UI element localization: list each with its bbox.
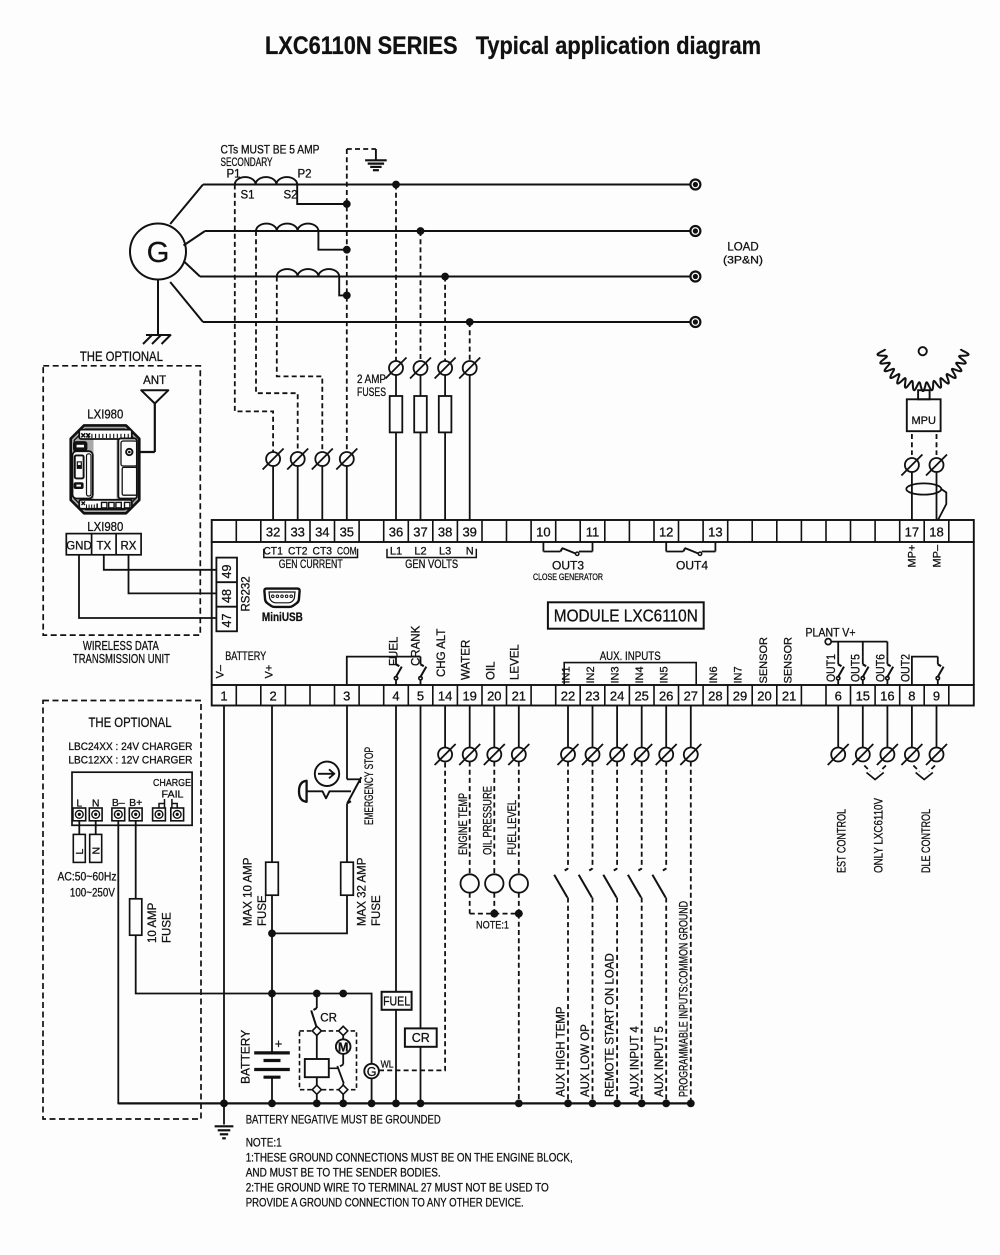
antenna ANT symbol xyxy=(141,390,168,403)
svg-text:LBC24XX : 24V CHARGER: LBC24XX : 24V CHARGER xyxy=(68,741,192,753)
svg-text:NOTE:1: NOTE:1 xyxy=(476,920,509,932)
svg-text:CLOSE GENERATOR: CLOSE GENERATOR xyxy=(533,572,603,582)
wire aux (dashed) pin 25 xyxy=(641,762,643,869)
junction CT3-COM xyxy=(343,292,351,300)
charger screw terminal xyxy=(89,808,102,821)
wire lamp to ground bus xyxy=(371,1078,373,1103)
charger screw terminal xyxy=(73,808,86,821)
sender body xyxy=(461,874,479,892)
terminal link CT group at pin 32 xyxy=(266,452,280,466)
relay contact blade xyxy=(329,1067,338,1069)
svg-text:3: 3 xyxy=(343,689,350,704)
wire pin 26 down xyxy=(665,706,667,748)
sender body xyxy=(485,874,503,892)
wire CT3 sense (dashed) xyxy=(277,277,323,453)
svg-text:L1: L1 xyxy=(390,546,402,558)
wireless module LXI980 device drawing xyxy=(71,425,140,513)
wire CT3 tap xyxy=(339,277,344,296)
module LXC6110N body outline xyxy=(212,520,974,542)
terminal link pin 24 xyxy=(610,748,624,762)
wire coil feed xyxy=(316,1036,318,1060)
svg-text:IN2: IN2 xyxy=(585,666,597,683)
svg-text:IN7: IN7 xyxy=(732,666,744,683)
wire MPU+ to terminal 17 xyxy=(911,472,913,520)
wire aux to ground bus (dashed) xyxy=(616,898,618,1104)
wire L3 sense (dashed) xyxy=(444,277,446,362)
junction L1 volts xyxy=(392,181,400,189)
svg-text:WIRELESS DATA: WIRELESS DATA xyxy=(83,639,159,653)
wire gen to L3 xyxy=(184,261,201,277)
svg-text:20: 20 xyxy=(757,689,771,704)
svg-text:SENSOR: SENSOR xyxy=(783,637,795,684)
wire line L3 xyxy=(200,276,690,278)
svg-text:FUSES: FUSES xyxy=(357,387,386,399)
terminal link pin 27 xyxy=(684,748,698,762)
wire sender commons (dashed) xyxy=(469,893,471,914)
svg-text:CT2: CT2 xyxy=(288,546,308,558)
wire positive rail xyxy=(272,994,372,1064)
svg-text:13: 13 xyxy=(708,525,722,540)
svg-text:P1: P1 xyxy=(227,169,241,181)
svg-text:IN1: IN1 xyxy=(560,666,572,683)
svg-text:24: 24 xyxy=(610,689,624,704)
svg-text:DLE CONTROL: DLE CONTROL xyxy=(921,809,933,873)
fuse 2A F1 xyxy=(395,375,397,396)
svg-text:MODULE LXC6110N: MODULE LXC6110N xyxy=(554,606,698,626)
svg-text:38: 38 xyxy=(438,525,452,540)
switch OUT5 (pin 15) xyxy=(862,642,864,657)
wire aux to ground bus (dashed) xyxy=(592,898,594,1104)
fuse 10A charger xyxy=(130,899,142,935)
wire pin 5 to CR coil xyxy=(420,706,422,1029)
svg-text:CHARGE: CHARGE xyxy=(153,777,191,789)
junction charger rail xyxy=(268,990,276,998)
wire N to terminal 39 xyxy=(469,375,471,520)
svg-text:SECONDARY: SECONDARY xyxy=(221,157,273,169)
svg-text:ANT: ANT xyxy=(143,375,166,387)
svg-text:PROGRAMMABLE INPUTS:COMMON GRO: PROGRAMMABLE INPUTS:COMMON GROUND xyxy=(678,901,690,1097)
wire link to terminal xyxy=(346,466,348,520)
svg-text:EMERGENCY STOP: EMERGENCY STOP xyxy=(364,747,376,825)
charger screw terminal xyxy=(129,808,142,821)
svg-text:FUSE: FUSE xyxy=(257,895,269,926)
wire gen to L1 xyxy=(170,185,203,225)
CT coil CT2 xyxy=(256,224,318,231)
svg-text:15: 15 xyxy=(856,689,870,704)
svg-text:CTs MUST BE 5 AMP: CTs MUST BE 5 AMP xyxy=(221,145,320,157)
wire pin 8 down xyxy=(911,706,913,748)
relay contact OUT3 (pins 10-11) xyxy=(542,542,544,552)
svg-text:ENGINE TEMP: ENGINE TEMP xyxy=(458,793,470,855)
wire 32A fuse to battery positive xyxy=(272,895,347,933)
svg-text:12: 12 xyxy=(659,525,673,540)
svg-text:S2: S2 xyxy=(284,190,298,202)
terminal link pin 6 xyxy=(831,748,845,762)
wire MPU+ (dashed) xyxy=(911,434,913,455)
terminal link MPU+ pin 17 xyxy=(905,458,919,472)
svg-text:OUT5: OUT5 xyxy=(851,654,863,682)
wire L2 sense (dashed) xyxy=(420,231,422,361)
wire CT1 sense (dashed) xyxy=(235,185,273,453)
svg-text:WATER: WATER xyxy=(461,640,473,680)
svg-text:39: 39 xyxy=(462,525,476,540)
svg-text:IN5: IN5 xyxy=(659,666,671,683)
svg-text:NOTE:1: NOTE:1 xyxy=(246,1136,282,1150)
wire PLANT V+ bus xyxy=(831,641,887,643)
wire sender (dashed) pin 19 xyxy=(469,762,471,875)
sender body xyxy=(510,874,528,892)
battery charger terminal box xyxy=(72,772,192,825)
svg-text:FUEL LEVEL: FUEL LEVEL xyxy=(507,800,519,855)
wire pin 9 down xyxy=(936,706,938,748)
svg-text:MP+: MP+ xyxy=(907,545,919,568)
wire aux (dashed) pin 24 xyxy=(616,762,618,869)
starter relay box (dashed) xyxy=(300,1031,357,1090)
svg-text:34: 34 xyxy=(315,525,329,540)
svg-text:CR: CR xyxy=(320,1013,337,1025)
load terminal xyxy=(690,226,700,236)
svg-text:10: 10 xyxy=(536,525,550,540)
engine flywheel gear xyxy=(878,349,969,391)
wire aux (dashed) pin 22 xyxy=(567,762,569,869)
wire B- to ground bus xyxy=(118,821,224,1104)
svg-text:OUT3: OUT3 xyxy=(552,559,584,573)
wire WL to CHG ALT (dashed) xyxy=(379,762,445,1071)
terminal link pin 8 xyxy=(905,748,919,762)
svg-text:LEVEL: LEVEL xyxy=(510,644,522,680)
svg-text:N: N xyxy=(466,546,474,558)
switch OUT6 (pin 16) xyxy=(886,642,888,657)
svg-text:28: 28 xyxy=(708,689,722,704)
svg-text:48: 48 xyxy=(220,589,234,603)
switch AUX LOW OP xyxy=(589,869,592,871)
wire pin 15 down xyxy=(862,706,864,748)
terminal link volts at pin 37 xyxy=(414,361,428,375)
svg-text:6: 6 xyxy=(835,689,842,704)
wire FUEL/CRANK feed from pin 3 xyxy=(347,657,421,685)
svg-text:WL: WL xyxy=(381,1060,394,1071)
wire pin 27 common ground (dashed) xyxy=(690,706,692,748)
terminal link pin 19 xyxy=(463,748,477,762)
junction sender common 2 xyxy=(515,910,523,918)
svg-text:N: N xyxy=(90,847,102,855)
wire battery negative ground bus xyxy=(118,1102,691,1104)
ground generator chassis xyxy=(157,280,159,335)
svg-text:19: 19 xyxy=(462,689,476,704)
wire L1 sense (dashed) xyxy=(395,185,397,362)
svg-text:AND MUST BE TO THE SENDER BODI: AND MUST BE TO THE SENDER BODIES. xyxy=(246,1166,441,1180)
relay terminal top left xyxy=(312,1026,321,1035)
starter motor M xyxy=(336,1039,351,1054)
wire motor to contact xyxy=(342,1054,344,1065)
svg-text:L: L xyxy=(74,849,86,855)
svg-text:IN6: IN6 xyxy=(708,666,720,683)
svg-text:OIL: OIL xyxy=(485,661,497,680)
wire TX to pin 49 xyxy=(104,555,217,570)
wire pin 2 V+ down xyxy=(271,706,273,863)
fuse 2A F2 xyxy=(420,375,422,396)
svg-text:32: 32 xyxy=(266,525,280,540)
wire link to terminal xyxy=(321,466,323,520)
wire sender (dashed) pin 21 xyxy=(518,762,520,875)
switch CR contact (start) xyxy=(316,994,318,1009)
wire line L1 xyxy=(203,184,690,186)
wire pin 25 down xyxy=(641,706,643,748)
svg-text:GEN VOLTS: GEN VOLTS xyxy=(405,559,458,571)
RS232 terminals 49 48 47 xyxy=(216,558,237,632)
svg-text:21: 21 xyxy=(782,689,796,704)
svg-text:RS232: RS232 xyxy=(241,576,253,611)
charge lamp WL xyxy=(364,1064,379,1079)
svg-text:23: 23 xyxy=(585,689,599,704)
svg-text:33: 33 xyxy=(290,525,304,540)
fuse MAX 10 AMP xyxy=(266,862,279,895)
svg-text:MP–: MP– xyxy=(932,544,944,568)
svg-text:BATTERY: BATTERY xyxy=(238,1030,252,1084)
CT coil CT1 (P1 P2 S1 S2) xyxy=(235,177,297,184)
terminal link pin 15 xyxy=(856,748,870,762)
wire aux (dashed) pin 26 xyxy=(665,762,667,869)
svg-text:OUT1: OUT1 xyxy=(826,654,838,682)
svg-text:ONLY LXC6110V: ONLY LXC6110V xyxy=(873,798,885,873)
terminal row dividers bottom xyxy=(235,685,237,706)
svg-text:COM: COM xyxy=(337,546,357,558)
svg-text:IN3: IN3 xyxy=(610,666,622,683)
wire B+ fuse to battery positive rail xyxy=(136,935,272,993)
bracket aux inputs group xyxy=(564,663,696,685)
wire fuse to terminal xyxy=(444,432,446,520)
wire CT2 sense (dashed) xyxy=(256,231,298,452)
wire link to terminal xyxy=(297,466,299,520)
svg-text:8: 8 xyxy=(908,689,915,704)
svg-text:LXC6110N SERIES Typical appl: LXC6110N SERIES Typical application diag… xyxy=(265,32,761,60)
svg-text:MiniUSB: MiniUSB xyxy=(262,612,303,624)
junction sender common 1 xyxy=(490,910,498,918)
svg-text:TRANSMISSION UNIT: TRANSMISSION UNIT xyxy=(73,652,170,666)
svg-text:27: 27 xyxy=(684,689,698,704)
optional wireless unit enclosure (dashed) xyxy=(43,366,200,635)
junction battery negative xyxy=(268,1100,276,1108)
wire CR to ground bus xyxy=(420,1047,422,1104)
CT coil CT3 xyxy=(277,269,339,276)
svg-text:26: 26 xyxy=(659,689,673,704)
svg-text:(3P&N): (3P&N) xyxy=(723,255,763,267)
svg-text:GND: GND xyxy=(66,541,92,553)
switch OUT1 (pin 6) xyxy=(837,642,839,657)
wire GND to pin 47 xyxy=(79,555,216,618)
svg-text:+: + xyxy=(275,1037,282,1051)
wire sender (dashed) pin 20 xyxy=(493,762,495,875)
svg-text:1:THESE GROUND CONNECTIONS MUS: 1:THESE GROUND CONNECTIONS MUST BE ON TH… xyxy=(246,1151,573,1165)
svg-text:22: 22 xyxy=(561,689,575,704)
cable shield loop xyxy=(906,483,941,494)
switch CRANK output (pin 5) xyxy=(420,657,422,665)
svg-text:MAX 10 AMP: MAX 10 AMP xyxy=(243,857,255,926)
svg-text:TX: TX xyxy=(96,541,111,553)
svg-text:29: 29 xyxy=(733,689,747,704)
switch AUX INPUT 5 xyxy=(663,869,666,871)
svg-text:CRANK: CRANK xyxy=(411,625,423,666)
svg-text:SENSOR: SENSOR xyxy=(758,637,770,684)
relay terminal bottom right xyxy=(339,1085,348,1094)
svg-text:CT3: CT3 xyxy=(313,546,333,558)
svg-text:LXI980: LXI980 xyxy=(87,408,123,422)
wire line L2 xyxy=(205,230,690,232)
terminal link pin 20 xyxy=(487,748,501,762)
bracket gen volts group xyxy=(387,549,476,558)
svg-text:BATTERY NEGATIVE MUST BE GROUN: BATTERY NEGATIVE MUST BE GROUNDED xyxy=(246,1113,441,1127)
terminal link CT group at pin 35 xyxy=(340,452,354,466)
terminal link MPU- pin 18 xyxy=(930,458,944,472)
svg-text:16: 16 xyxy=(880,689,894,704)
terminal link pin 25 xyxy=(635,748,649,762)
wire CT common (dashed) to ground and COM terminal xyxy=(346,149,348,452)
wire pin 20 down xyxy=(493,706,495,748)
terminal link pin 9 xyxy=(930,748,944,762)
wireless terminal block GND TX RX xyxy=(66,534,141,555)
wire fuse to battery xyxy=(271,895,273,1053)
svg-text:G: G xyxy=(367,1065,377,1079)
terminal row dividers top xyxy=(235,520,237,542)
emergency stop actuator symbol xyxy=(315,762,339,786)
terminal link pin 21 xyxy=(512,748,526,762)
svg-text:AUX INPUT 5: AUX INPUT 5 xyxy=(654,1026,666,1097)
junction CT2-COM xyxy=(343,246,351,254)
svg-text:GEN CURRENT: GEN CURRENT xyxy=(279,559,343,571)
svg-text:2: 2 xyxy=(269,689,276,704)
svg-text:FAIL: FAIL xyxy=(162,789,184,801)
svg-text:V+: V+ xyxy=(264,665,276,679)
wire motor branch xyxy=(342,1036,344,1040)
svg-text:OUT4: OUT4 xyxy=(676,559,708,573)
relay coil CR xyxy=(405,1028,437,1046)
wire EST control merge (dashed) xyxy=(864,766,870,772)
svg-text:4: 4 xyxy=(392,689,399,704)
charger screw terminal xyxy=(171,808,184,821)
switch AUX INPUT 4 xyxy=(638,869,641,871)
svg-text:V–: V– xyxy=(215,664,227,678)
svg-text:IN4: IN4 xyxy=(634,666,646,683)
switch OUT2 (pins 8-9) xyxy=(912,657,938,685)
junction N volts xyxy=(466,318,474,326)
svg-text:FUEL: FUEL xyxy=(383,995,410,1009)
terminal link pin 22 xyxy=(561,748,575,762)
svg-text:B–: B– xyxy=(112,797,125,809)
svg-text:14: 14 xyxy=(438,689,452,704)
svg-text:FUEL: FUEL xyxy=(389,636,401,666)
relay terminal bottom left xyxy=(312,1085,321,1094)
svg-text:P2: P2 xyxy=(298,169,312,181)
svg-text:THE OPTIONAL: THE OPTIONAL xyxy=(89,715,172,730)
wire pin 21 down xyxy=(518,706,520,748)
wire shield drain to terminal 18 xyxy=(938,489,946,520)
wire gen to N xyxy=(170,282,203,322)
wire fuse to terminal xyxy=(395,432,397,520)
svg-text:PROVIDE A GROUND CONNECTION TO: PROVIDE A GROUND CONNECTION TO ANY OTHER… xyxy=(246,1196,524,1210)
svg-text:AUX HIGH TEMP: AUX HIGH TEMP xyxy=(556,1006,568,1097)
load terminal xyxy=(690,272,700,282)
wire sender common to ground bus (dashed) xyxy=(518,914,520,1104)
svg-text:CHG ALT: CHG ALT xyxy=(436,629,448,677)
svg-text:37: 37 xyxy=(413,525,427,540)
terminal link pin 23 xyxy=(586,748,600,762)
svg-text:5: 5 xyxy=(417,689,424,704)
wire pin 6 down xyxy=(837,706,839,748)
wire battery to ground bus xyxy=(271,1077,273,1103)
wire CT1 S2 tap xyxy=(297,185,344,205)
junction CT1-COM xyxy=(343,200,351,208)
terminal link pin 14 xyxy=(438,748,452,762)
svg-text:1: 1 xyxy=(220,689,227,704)
MiniUSB connector icon xyxy=(264,589,299,607)
svg-text:MAX 32 AMP: MAX 32 AMP xyxy=(357,857,369,926)
svg-text:S1: S1 xyxy=(241,190,255,202)
wire aux to ground bus (dashed) xyxy=(665,898,667,1104)
wire aux to ground bus (dashed) xyxy=(641,898,643,1104)
fuse 2A F3 xyxy=(444,375,446,396)
wire MPU- to terminal 18 xyxy=(936,472,938,520)
terminal link pin 26 xyxy=(659,748,673,762)
starter solenoid coil xyxy=(305,1059,329,1077)
svg-text:100~250V: 100~250V xyxy=(70,888,115,900)
svg-text:17: 17 xyxy=(905,525,919,540)
svg-text:M: M xyxy=(338,1041,348,1055)
wire aux to ground bus (dashed) xyxy=(567,898,569,1104)
charger screw terminal xyxy=(112,808,125,821)
junction motor branch xyxy=(339,990,347,998)
svg-text:CR: CR xyxy=(412,1031,430,1045)
svg-text:FUSE: FUSE xyxy=(162,912,174,943)
ground earth (CT common) xyxy=(375,149,377,160)
terminal link CT group at pin 33 xyxy=(291,452,305,466)
terminal link CT group at pin 34 xyxy=(315,452,329,466)
wire pin 3 down xyxy=(346,706,348,780)
ground earth (battery negative) xyxy=(223,1103,225,1124)
junction V- ground xyxy=(220,1100,228,1108)
terminal link volts at pin 38 xyxy=(438,361,452,375)
svg-text:36: 36 xyxy=(389,525,403,540)
svg-text:OUT2: OUT2 xyxy=(900,654,912,682)
svg-text:EST CONTROL: EST CONTROL xyxy=(837,809,849,873)
svg-text:CT1: CT1 xyxy=(263,546,283,558)
plug pin N xyxy=(95,821,97,835)
junction L2 volts xyxy=(417,227,425,235)
MPU sensor U-MPU xyxy=(918,390,930,399)
svg-text:18: 18 xyxy=(929,525,943,540)
wire pin 23 down xyxy=(592,706,594,748)
fuse MAX 32 AMP xyxy=(341,862,354,895)
svg-text:L2: L2 xyxy=(414,546,426,558)
svg-text:2:THE GROUND WIRE TO TERMINAL: 2:THE GROUND WIRE TO TERMINAL 27 MUST NO… xyxy=(246,1181,549,1195)
svg-text:L3: L3 xyxy=(439,546,451,558)
svg-text:10 AMP: 10 AMP xyxy=(147,902,159,943)
svg-text:G: G xyxy=(147,237,170,269)
bracket gen current group xyxy=(264,549,358,558)
wire N sense (dashed) xyxy=(469,322,471,361)
switch REMOTE START ON LOAD xyxy=(614,869,617,871)
svg-text:AUX. INPUTS: AUX. INPUTS xyxy=(600,651,661,663)
svg-text:LBC12XX : 12V CHARGER: LBC12XX : 12V CHARGER xyxy=(68,755,192,767)
wire aux (dashed) pin 23 xyxy=(592,762,594,869)
svg-text:47: 47 xyxy=(220,614,234,628)
gear shaft hole xyxy=(919,347,927,355)
svg-text:25: 25 xyxy=(634,689,648,704)
svg-text:MPU: MPU xyxy=(911,415,936,427)
charge fail contact symbol xyxy=(159,799,177,809)
svg-text:LXI980: LXI980 xyxy=(87,520,123,534)
junction CR branch xyxy=(313,990,321,998)
junction L3 volts xyxy=(441,273,449,281)
